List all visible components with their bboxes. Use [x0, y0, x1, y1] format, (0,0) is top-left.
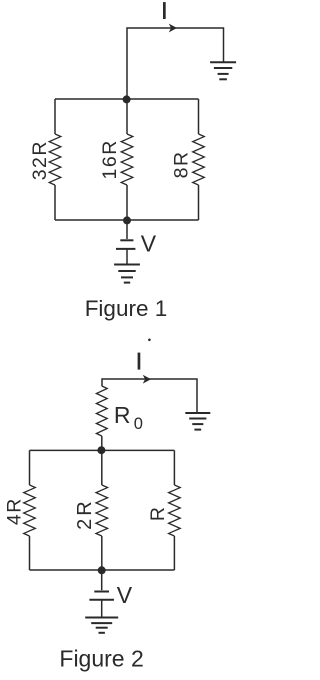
svg-text:16R: 16R — [99, 139, 121, 179]
svg-text:R0: R0 — [114, 402, 143, 433]
svg-text:2R: 2R — [74, 498, 96, 530]
svg-text:8R: 8R — [171, 150, 193, 178]
svg-text:V: V — [141, 231, 157, 257]
svg-text:Figure 2: Figure 2 — [59, 645, 143, 671]
svg-text:32R: 32R — [29, 140, 51, 180]
svg-text:4R: 4R — [3, 497, 25, 525]
svg-text:V: V — [117, 582, 133, 608]
svg-text:R: R — [147, 507, 169, 521]
svg-text:Figure 1: Figure 1 — [85, 296, 168, 321]
